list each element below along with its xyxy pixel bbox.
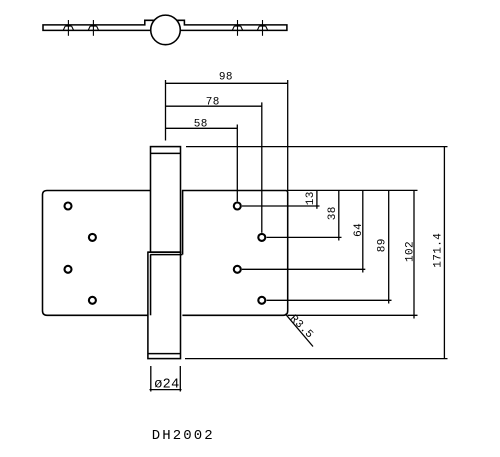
svg-text:171.4: 171.4 [433,233,445,268]
svg-text:98: 98 [219,72,233,84]
svg-text:58: 58 [194,119,208,131]
svg-text:38: 38 [327,206,339,220]
svg-text:64: 64 [353,223,365,237]
svg-text:89: 89 [377,238,389,252]
svg-text:102: 102 [404,241,416,262]
svg-text:DH2002: DH2002 [152,428,215,444]
svg-text:13: 13 [305,191,317,205]
svg-text:78: 78 [206,97,220,109]
svg-text:ø24: ø24 [154,378,179,393]
